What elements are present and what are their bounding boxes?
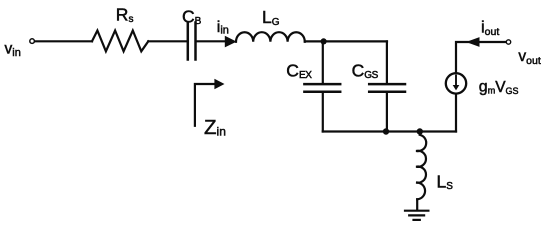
node B (383, 128, 389, 134)
arrow iin (225, 36, 237, 48)
wire (456, 42, 506, 73)
wire (35, 40, 92, 42)
capacitor CB (blocking cap) (188, 23, 196, 60)
node A (321, 38, 327, 44)
wire (416, 199, 418, 209)
wire (322, 93, 324, 132)
wire (386, 41, 388, 83)
ground (405, 211, 428, 220)
arrow iout (466, 37, 480, 47)
resistor Rs (92, 31, 148, 52)
current source gmVGS (446, 73, 466, 93)
wire (148, 40, 186, 42)
inductor LG (236, 32, 305, 42)
wire (197, 40, 227, 42)
impedance arrow Zin (195, 84, 216, 127)
wire (455, 94, 457, 131)
terminal vout (506, 40, 510, 44)
wire (305, 40, 387, 42)
arrow of current source (453, 85, 460, 90)
inductor LS (416, 135, 426, 200)
node C (417, 128, 423, 134)
capacitor CEX (304, 84, 340, 92)
capacitor CGS (369, 84, 405, 92)
terminal vin (30, 39, 35, 44)
wire (386, 93, 388, 132)
wire (323, 130, 456, 132)
wire (322, 41, 324, 83)
